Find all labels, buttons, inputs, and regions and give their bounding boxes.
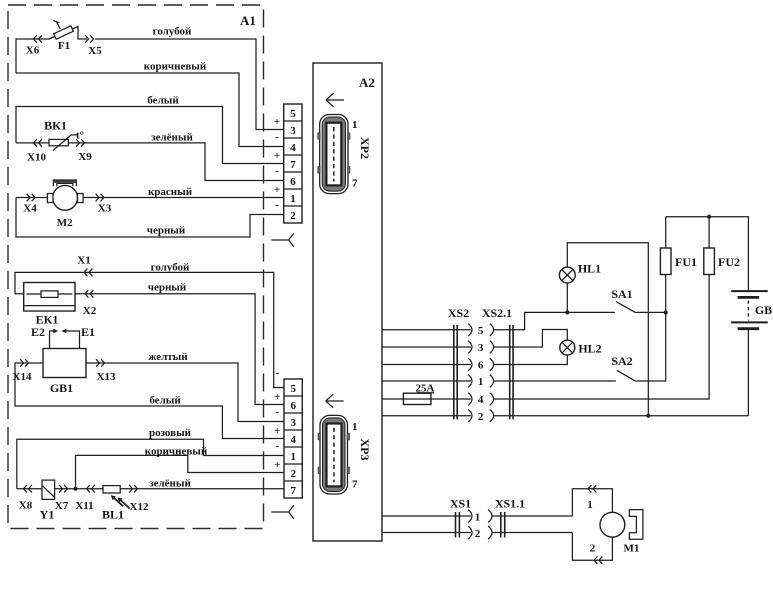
svg-text:красный: красный [148,186,193,198]
svg-text:XS2.1: XS2.1 [482,306,512,320]
svg-text:-: - [275,199,279,211]
junction node FU2/bus [707,215,711,219]
svg-text:1: 1 [587,499,593,511]
motor M2 [47,180,83,229]
svg-text:1: 1 [290,451,296,463]
connector XP3 [318,415,372,494]
fuse FU1 [660,217,697,275]
lamp HL1 [559,243,648,416]
svg-text:6: 6 [290,176,296,188]
arrow above XP2 [326,93,344,107]
svg-text:1: 1 [352,421,358,433]
polarity signs lower block [274,367,280,471]
svg-text:X6: X6 [26,45,40,57]
connector XP2 [318,115,372,194]
wire row XS1 pin1 [382,510,572,524]
svg-text:X8: X8 [19,500,33,512]
svg-text:4: 4 [478,394,484,406]
svg-text:черный: черный [147,225,186,237]
svg-text:голубой: голубой [151,262,190,274]
wire row XS1 pin2 [382,526,572,540]
wire красный (red) to terminal 1 [16,186,284,198]
svg-text:-: - [275,367,279,379]
connector pin X3 [96,194,112,215]
svg-text:2: 2 [290,468,296,480]
svg-text:7: 7 [352,479,358,491]
svg-text:+: + [274,184,280,196]
svg-text:7: 7 [290,159,296,171]
switch SA2 [611,275,665,382]
svg-text:+: + [274,116,280,128]
svg-text:белый: белый [147,95,179,107]
svg-text:6: 6 [290,400,296,412]
svg-text:5: 5 [290,383,296,395]
svg-text:3: 3 [290,417,296,429]
svg-text:SA1: SA1 [611,287,632,301]
wire белый (white) lower: to terminal 4 [15,363,284,439]
svg-text:1: 1 [478,376,484,388]
battery GB1 [43,349,86,396]
wire коричневый (brown) to terminal 4 [16,61,284,147]
svg-text:ВК1: ВК1 [44,119,67,133]
dashed enclosure box A1 [8,5,264,529]
wire голубой (blue) top: X5 to terminal 3 [95,26,284,130]
svg-text:E1: E1 [81,325,95,339]
connector pin X6 [26,35,42,56]
wire зелёный (green) to terminal 6 [68,132,283,181]
wire row pin1 [382,375,616,388]
svg-text:черный: черный [148,282,187,294]
svg-text:зелёный: зелёный [149,478,191,490]
junction node HL1-loop/pin2 [646,414,650,418]
connector pin X11 [75,485,95,512]
fuse 25A [382,383,435,405]
connector pin X5 [85,35,102,57]
fuse FU2 [704,217,740,275]
wire коричневый (brown) lower: to terminal 2 [76,446,285,489]
svg-text:X7: X7 [55,500,69,512]
svg-text:M2: M2 [57,217,73,229]
XS1 housing walls [456,512,460,538]
svg-text:зелёный: зелёный [151,132,193,144]
connector pin X12 [129,485,149,513]
svg-text:X1: X1 [77,255,90,267]
wire to fuse F1 left side [16,39,50,73]
wire row pin4 [431,275,709,407]
svg-text:X5: X5 [88,45,102,57]
connector pin X9 [76,139,92,163]
svg-text:1: 1 [352,119,358,131]
terminal E1 with arrow [61,325,95,349]
svg-text:ХР3: ХР3 [358,439,372,461]
connector pin X1 [77,255,92,277]
switch SA1 [611,287,665,312]
svg-text:HL1: HL1 [578,262,601,276]
lamp HL2 [560,340,602,355]
connector pin X8 [19,485,33,512]
terminal block upper (pins 5 3 4 7 6 1 2) [284,104,302,223]
svg-text:GB: GB [755,303,772,317]
svg-text:1: 1 [290,193,296,205]
XS2 housing walls [454,325,457,420]
wire белый (white) to terminal 7 [16,95,284,164]
svg-text:A1: A1 [240,13,256,28]
svg-text:XS2: XS2 [448,306,469,320]
wire желтый (yellow) to terminal 3 [86,351,284,422]
terminal E2 with arrow [31,325,58,349]
battery GB [731,291,772,416]
wire row pin5 [382,312,615,337]
svg-text:5: 5 [290,108,296,120]
svg-text:X2: X2 [83,305,97,317]
connector pin X10 [27,139,46,163]
svg-text:FU1: FU1 [675,255,697,269]
junction node SA1/FU1 [664,310,668,314]
svg-text:2: 2 [478,411,484,423]
svg-text:SA2: SA2 [611,354,632,368]
svg-text:желтый: желтый [148,351,188,363]
wire row pin6 [382,355,567,371]
svg-text:7: 7 [352,178,358,190]
svg-text:-: - [275,165,279,177]
svg-text:+: + [274,425,280,437]
svg-text:Y1: Y1 [40,508,55,522]
svg-text:X3: X3 [98,203,112,215]
wire голубой (blue) lower: to terminal 5 [15,262,284,388]
svg-text:ХР2: ХР2 [358,137,372,159]
svg-text:A2: A2 [359,75,375,90]
control unit box A2 [313,63,382,541]
svg-text:7: 7 [290,485,296,497]
junction dot X11 node [74,487,78,491]
polarity signs upper block [274,116,280,211]
svg-text:6: 6 [478,360,484,372]
svg-text:коричневый: коричневый [145,446,208,458]
svg-text:3: 3 [478,342,484,354]
chassis ground lower [271,505,294,519]
temperature sensor BK1 [16,119,84,151]
wire черный (black) lower: to terminal 6 [75,282,284,405]
svg-text:3: 3 [290,125,296,137]
heating element EK1 [24,283,75,327]
top supply bus [666,217,749,291]
svg-text:X13: X13 [97,371,116,383]
svg-text:GB1: GB1 [50,381,73,395]
svg-text:4: 4 [290,434,296,446]
svg-text:розовый: розовый [149,427,192,439]
M1 loop wire 2 [572,533,612,565]
svg-text:2: 2 [290,210,296,222]
svg-text:X9: X9 [78,151,92,163]
svg-text:голубой: голубой [153,26,192,38]
svg-text:-: - [275,440,279,452]
svg-text:+: + [274,459,280,471]
svg-text:4: 4 [290,142,296,154]
svg-text:F1: F1 [58,40,70,52]
connector pin X14 [13,359,32,383]
svg-text:белый: белый [149,395,181,407]
wire черный (black) to terminal 2 [16,198,284,238]
svg-text:BL1: BL1 [102,508,124,522]
connector pin X4 [23,194,37,215]
wire row pin3 [382,330,567,355]
svg-text:X12: X12 [130,501,149,513]
svg-text:X11: X11 [75,500,93,512]
chassis ground upper [271,233,294,247]
junction node HL1/pin5 [565,310,569,314]
M1 loop wire 1 [572,485,612,516]
XS1.1 housing walls [501,512,505,538]
svg-text:HL2: HL2 [578,342,601,356]
svg-text:5: 5 [478,325,484,337]
wire розовый (pink) to terminal 1 [17,427,284,489]
svg-text:M1: M1 [624,543,640,555]
wire зелёный (green) to terminal 7 [17,478,284,490]
svg-text:XS1: XS1 [450,497,471,511]
svg-text:FU2: FU2 [718,255,740,269]
svg-text:E2: E2 [31,325,45,339]
svg-text:XS1.1: XS1.1 [495,497,525,511]
svg-text:коричневый: коричневый [144,61,207,73]
motor M1 [600,510,643,555]
connector pin X13 [96,359,116,383]
XS2.1 housing walls [510,325,513,420]
svg-text:X10: X10 [27,152,46,164]
svg-text:2: 2 [590,543,596,555]
photo sensor BL1 [102,486,130,522]
svg-text:-: - [275,131,279,143]
arrow above XP3 [326,394,344,408]
svg-text:X4: X4 [23,203,37,215]
connector pin X7 [55,485,69,512]
svg-text:+: + [274,150,280,162]
terminal block lower (pins 5 6 3 4 1 2 7) [284,379,302,498]
fuse F1 (circuit breaker, tilted) [49,20,87,52]
svg-text:2: 2 [475,528,481,540]
svg-text:1: 1 [475,512,481,524]
svg-text:-: - [275,406,279,418]
svg-text:+: + [274,391,280,403]
electromagnetic valve Y1 [40,480,55,521]
connector pin X2 [83,290,97,317]
wire row pin2 [382,410,748,423]
